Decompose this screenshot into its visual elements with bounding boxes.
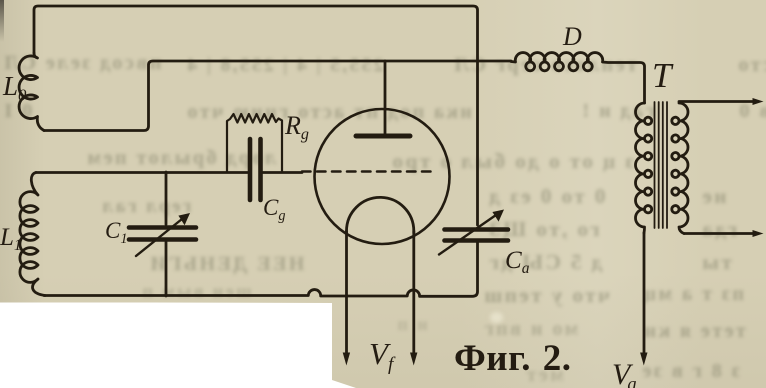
inductor D (anode choke): [511, 53, 645, 103]
wire: primary bottom lead down to Va arrow: [643, 233, 646, 357]
filament lead left with arrow Vf: [345, 231, 348, 357]
wire: grid rail from L1 top to tube: [36, 171, 302, 174]
label Ca: [505, 247, 529, 278]
anode plate bar: [356, 134, 410, 139]
capacitor Cg plates: [250, 139, 261, 200]
anode lead: [384, 61, 387, 136]
caption Fig 2: [454, 337, 571, 380]
label Cg: [263, 195, 285, 225]
triode tube envelope: [315, 109, 450, 244]
label Rg: [285, 111, 309, 144]
capacitor C1 branch wire: [165, 172, 168, 296]
label Va: [612, 358, 637, 388]
label C1: [105, 218, 127, 248]
capacitor C1 (variable) plates: [129, 228, 196, 240]
dark scan edge top-left: [0, 0, 4, 42]
label T: [652, 56, 671, 96]
label L0: [3, 71, 26, 106]
wire: bottom rail with crossover humps: [44, 242, 478, 297]
transformer T secondary winding: [672, 103, 688, 234]
ghost bleed-through text rows: [2, 52, 161, 75]
resistor Rg loop: [227, 114, 282, 172]
capacitor Ca (variable, anode) plates: [445, 230, 509, 241]
transformer T core laminations: [655, 102, 668, 228]
filament dome: [347, 197, 414, 233]
label Vf: [369, 336, 393, 376]
wire: top horizontal rail and right riser: [34, 6, 478, 225]
wire: secondary top lead with arrow: [679, 100, 757, 103]
wire: secondary bottom lead with arrow: [684, 232, 757, 235]
grid (dashed) inside tube: [302, 170, 437, 173]
label D: [563, 22, 582, 52]
wire: L0 bottom lead to riser and plate rail: [44, 61, 511, 131]
label L1: [0, 224, 22, 255]
filament lead right with arrow: [412, 231, 415, 357]
paper blemish spot: [490, 312, 503, 323]
capacitor C1 arrow: [136, 219, 182, 256]
capacitor Ca arrow: [439, 215, 496, 255]
inductor L0: [19, 53, 44, 131]
transformer T primary winding: [636, 103, 652, 233]
inductor L1: [20, 173, 45, 296]
